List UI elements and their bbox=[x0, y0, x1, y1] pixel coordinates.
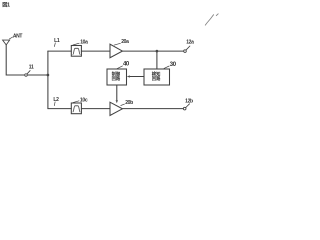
terminal 12a diagonal bbox=[186, 46, 190, 50]
detection circuit 30 box bbox=[144, 69, 170, 85]
svg-text:20b: 20b bbox=[125, 100, 133, 106]
svg-text:10a: 10a bbox=[80, 40, 88, 46]
switch 11 arm bbox=[27, 71, 30, 74]
filter 10a bandpass symbol bbox=[73, 48, 80, 54]
wire amp 20a to terminal 12a bbox=[122, 50, 183, 52]
wire switch to bus bbox=[27, 74, 48, 76]
junction dot bus bbox=[47, 74, 50, 77]
svg-text:図1: 図1 bbox=[2, 0, 10, 8]
arrow detection 30 to control 40 bbox=[129, 76, 144, 78]
leader line 20a bbox=[114, 43, 120, 45]
svg-text:12b: 12b bbox=[185, 99, 193, 105]
wire bus vertical bbox=[47, 51, 49, 109]
wire filter 10c to amp 20b bbox=[81, 108, 110, 110]
junction dot node A bbox=[156, 50, 159, 53]
leader line 30 bbox=[164, 66, 169, 68]
arrow control 40 to amp 20b bbox=[116, 85, 118, 101]
leader line 20b bbox=[121, 104, 125, 105]
wire filter 10a to amp 20a bbox=[81, 50, 110, 52]
terminal 12b circle bbox=[183, 107, 186, 110]
svg-text:回路: 回路 bbox=[112, 75, 121, 82]
leader line ANT bbox=[9, 37, 12, 39]
filter 10c bandpass symbol bbox=[73, 106, 80, 112]
wire amp 20b to terminal 12b bbox=[122, 108, 183, 110]
leader line 10c bbox=[73, 101, 79, 103]
filter 10c box bbox=[71, 103, 81, 114]
leader line 40 bbox=[117, 66, 123, 69]
control circuit 40 box bbox=[107, 69, 127, 85]
wire bus to filter 10c bbox=[48, 108, 71, 110]
op-amp 20b triangle bbox=[110, 102, 122, 115]
svg-text:L2: L2 bbox=[53, 97, 59, 103]
svg-text:30: 30 bbox=[170, 62, 177, 68]
wire bus to filter 10a bbox=[48, 50, 71, 52]
leader line L2 bbox=[53, 102, 56, 106]
wire node A to detection circuit 30 bbox=[156, 51, 158, 69]
stray mark top right bbox=[205, 14, 218, 25]
svg-text:40: 40 bbox=[123, 62, 130, 68]
leader line L1 bbox=[53, 43, 56, 47]
svg-text:11: 11 bbox=[29, 65, 34, 71]
svg-text:回路: 回路 bbox=[152, 75, 161, 82]
terminal 12a circle bbox=[184, 50, 187, 53]
wire antenna feed bbox=[6, 45, 25, 75]
svg-text:12a: 12a bbox=[186, 39, 194, 45]
svg-text:20a: 20a bbox=[121, 39, 129, 45]
switch 11 contact circle bbox=[25, 74, 28, 77]
terminal 12b diagonal bbox=[186, 104, 190, 108]
filter 10a box bbox=[71, 46, 81, 57]
svg-text:ANT: ANT bbox=[13, 34, 23, 40]
svg-text:10c: 10c bbox=[80, 97, 88, 103]
antenna ANT bbox=[3, 40, 10, 45]
op-amp 20a triangle bbox=[110, 44, 122, 58]
leader line 10a bbox=[73, 43, 79, 45]
